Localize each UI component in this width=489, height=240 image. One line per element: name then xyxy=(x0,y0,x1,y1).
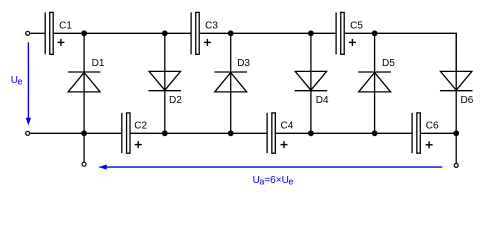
diode D2 xyxy=(149,71,182,90)
node dot bottom D2 xyxy=(162,130,168,136)
wire top rail: C5 to right corner xyxy=(345,33,456,71)
wire diode column D4 xyxy=(310,33,312,133)
capacitor C1 xyxy=(45,12,53,54)
voltage arrow Ua output xyxy=(99,164,442,169)
svg-text:D3: D3 xyxy=(237,58,250,69)
node dot bottom D6 xyxy=(453,130,459,136)
wire stub to output terminal left xyxy=(83,133,85,161)
polarity plus C5 xyxy=(349,39,356,46)
svg-text:C6: C6 xyxy=(426,121,439,132)
voltage arrow Ue xyxy=(26,42,31,125)
svg-text:D2: D2 xyxy=(169,95,182,106)
svg-text:C1: C1 xyxy=(59,21,72,32)
terminal output left xyxy=(82,162,86,166)
capacitor C3 xyxy=(191,12,199,54)
wire diode column D2 xyxy=(164,33,166,133)
svg-text:Ua=6×Ue: Ua=6×Ue xyxy=(253,175,294,187)
wire top rail: C1 to C3 xyxy=(54,32,191,34)
node dot bottom D4 xyxy=(308,130,314,136)
capacitor C5 xyxy=(336,12,344,54)
svg-text:C2: C2 xyxy=(134,121,147,132)
diode D6 xyxy=(440,71,473,90)
wire bottom rail: C6 to D6 xyxy=(421,132,456,134)
svg-text:C4: C4 xyxy=(281,121,294,132)
wire diode column D3 xyxy=(230,33,232,133)
polarity plus C2 xyxy=(135,141,142,148)
node dot top D2 xyxy=(162,30,168,36)
svg-text:D5: D5 xyxy=(382,58,395,69)
node dot top D3 xyxy=(228,30,234,36)
node dot bottom D5 xyxy=(372,130,378,136)
wire top rail: terminal to C1 xyxy=(30,32,44,34)
svg-text:D6: D6 xyxy=(461,95,474,106)
svg-text:D1: D1 xyxy=(92,58,105,69)
node dot bottom D3 xyxy=(228,130,234,136)
diode D4 xyxy=(295,71,328,90)
wire diode column D5 xyxy=(374,33,376,133)
diode D3 xyxy=(214,72,247,92)
polarity plus C3 xyxy=(204,39,211,46)
capacitor C2 xyxy=(122,113,130,153)
terminal input top xyxy=(26,31,30,35)
wire stub to output terminal right xyxy=(455,133,457,163)
terminal output right xyxy=(454,163,458,167)
node dot bottom D1 xyxy=(81,130,87,136)
diode D1 xyxy=(68,72,101,92)
wire bottom rail: C2 to C4 xyxy=(131,132,268,134)
polarity plus C1 xyxy=(57,39,64,46)
svg-text:C5: C5 xyxy=(350,21,363,32)
polarity plus C6 xyxy=(426,141,433,148)
svg-text:Ue: Ue xyxy=(11,75,23,87)
node dot top D5 xyxy=(372,30,378,36)
capacitor C6 xyxy=(412,113,420,153)
node dot top D1 xyxy=(81,30,87,36)
svg-text:D4: D4 xyxy=(316,95,329,106)
wire bottom rail: C4 to C6 xyxy=(276,132,412,134)
node dot top D4 xyxy=(308,30,314,36)
wire diode column D6 xyxy=(455,33,457,133)
svg-text:C3: C3 xyxy=(205,21,218,32)
wire top rail: C3 to C5 xyxy=(200,32,336,34)
diode D5 xyxy=(358,72,391,92)
wire diode column D1 xyxy=(83,33,85,133)
capacitor C4 xyxy=(267,113,275,153)
polarity plus C4 xyxy=(281,141,288,148)
terminal input bottom xyxy=(26,131,30,135)
wire bottom rail: terminal to C2 xyxy=(30,132,122,134)
